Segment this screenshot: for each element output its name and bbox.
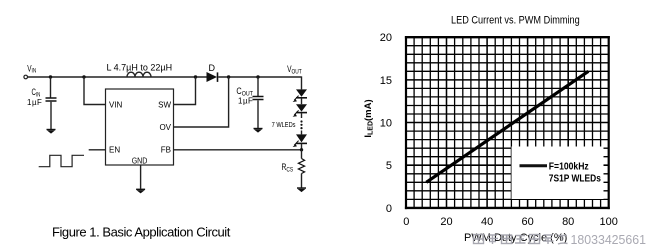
chart data line: [426, 71, 588, 182]
node VIN input terminal: [24, 63, 36, 79]
wire VOUT drop to LED string: [301, 76, 303, 89]
svg-text:0: 0: [403, 216, 409, 228]
wire LED1-LED2: [301, 98, 303, 104]
resistor RCS: [282, 159, 305, 174]
svg-text:7S1P WLEDs: 7S1P WLEDs: [549, 173, 601, 185]
node junction COUT tap: [256, 75, 259, 78]
svg-text:20: 20: [440, 216, 452, 228]
svg-text:1µF: 1µF: [238, 96, 253, 105]
capacitor COUT: [236, 86, 263, 105]
ground (below COUT): [254, 129, 263, 133]
svg-text:5: 5: [386, 160, 392, 172]
wire RCS bottom lead: [301, 174, 303, 188]
svg-text:0: 0: [386, 203, 392, 215]
wire LED3 to FB node: [301, 144, 303, 150]
svg-text:VOUT: VOUT: [287, 64, 302, 76]
node junction OV tap: [227, 75, 230, 78]
wire GND pin: [140, 165, 142, 189]
svg-text:GND: GND: [132, 156, 148, 166]
svg-text:15: 15: [380, 75, 392, 87]
wire CIN bottom lead: [50, 102, 52, 129]
wire COUT bottom lead: [257, 100, 259, 128]
svg-text:FB: FB: [161, 146, 171, 155]
signal PWM waveform at EN: [39, 155, 84, 166]
svg-text:VIN: VIN: [27, 63, 36, 75]
chart axes frame: [405, 37, 610, 208]
chart plot background: [405, 36, 610, 209]
svg-text:RCS: RCS: [282, 162, 294, 173]
svg-text:F=100kHz: F=100kHz: [549, 161, 589, 173]
chart legend line sample: [520, 164, 548, 167]
LED D1: [293, 89, 307, 102]
wire VIN pin drop: [84, 77, 106, 105]
wire VIN rail (top): [28, 76, 207, 78]
LED D3: [293, 134, 307, 147]
svg-text:10: 10: [380, 118, 392, 130]
diode D: [207, 63, 218, 82]
op-amp U1 (boost LED driver IC box): [106, 89, 174, 166]
svg-text:D: D: [209, 63, 216, 73]
LED D2: [293, 104, 307, 117]
wire SW pin riser: [174, 77, 196, 105]
wire EN: [89, 149, 106, 151]
chart minor gridlines: [406, 36, 610, 208]
wire LED2 stub: [301, 113, 303, 118]
wire diode cathode to VOUT corner: [218, 76, 301, 78]
inductor L 4.7uH to 22uH: [107, 63, 173, 78]
ground (below CIN): [47, 130, 56, 134]
wire OV pin drop: [174, 77, 229, 127]
chart x-axis tick labels: [403, 216, 618, 228]
svg-text:VIN: VIN: [109, 101, 123, 110]
chart legend box: [512, 147, 604, 200]
svg-text:100: 100: [600, 216, 618, 228]
chart major gridlines: [406, 36, 610, 208]
wire FB: [174, 149, 302, 151]
svg-text:L 4.7µH to 22µH: L 4.7µH to 22µH: [107, 63, 173, 73]
wire RCS top lead: [301, 150, 303, 159]
svg-text:LED Current vs. PWM Dimming: LED Current vs. PWM Dimming: [451, 15, 580, 27]
svg-text:7 WLEDs: 7 WLEDs: [272, 122, 296, 130]
node junction VIN-pin tap: [82, 75, 85, 78]
ground (below GND pin): [136, 189, 145, 193]
svg-text:Figure 1. Basic Application Ci: Figure 1. Basic Application Circuit: [52, 225, 231, 240]
svg-text:OV: OV: [159, 123, 171, 132]
node ellipsis (more LEDs): [300, 120, 302, 129]
svg-text:CIN: CIN: [32, 87, 41, 99]
svg-text:20: 20: [380, 32, 392, 44]
svg-text:SW: SW: [158, 101, 171, 110]
node junction FB/RCS: [300, 148, 303, 151]
chart y-axis tick labels: [380, 32, 392, 215]
wire COUT top lead: [257, 77, 259, 96]
svg-text:1µF: 1µF: [27, 98, 42, 107]
svg-text:ILED(mA): ILED(mA): [363, 99, 374, 137]
svg-text:40: 40: [481, 216, 493, 228]
node junction SW/diode: [194, 75, 197, 78]
capacitor CIN: [27, 87, 57, 107]
svg-text:60: 60: [521, 216, 533, 228]
ground (below RCS): [297, 188, 306, 192]
node junction CIN tap: [49, 75, 52, 78]
wire LED3 top stub: [301, 131, 303, 135]
node VOUT: [287, 64, 302, 76]
svg-text:80: 80: [562, 216, 574, 228]
svg-text:EN: EN: [109, 146, 120, 155]
svg-text:18033425661: 18033425661: [571, 232, 647, 247]
wire CIN top lead: [50, 77, 52, 98]
watermark pseudo-CJK glyphs: [474, 235, 568, 245]
